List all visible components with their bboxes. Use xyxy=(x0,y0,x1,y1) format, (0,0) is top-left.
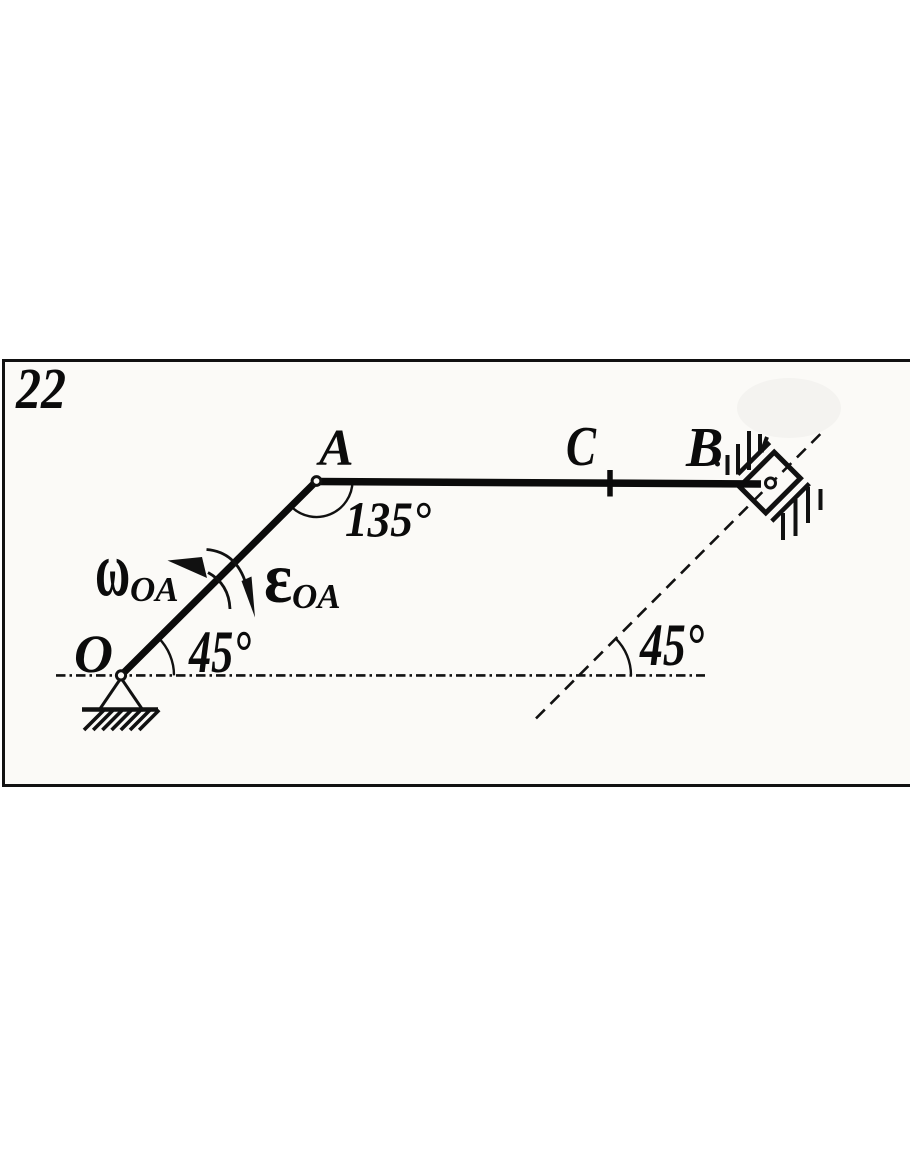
svg-text:22: 22 xyxy=(15,356,66,421)
svg-text:135°: 135° xyxy=(345,491,431,547)
svg-text:OA: OA xyxy=(292,577,341,616)
svg-text:OA: OA xyxy=(130,570,179,609)
svg-text:O: O xyxy=(74,624,113,684)
svg-text:C: C xyxy=(566,416,597,478)
svg-text:A: A xyxy=(316,420,354,477)
svg-text:ω: ω xyxy=(95,527,130,612)
svg-text:B: B xyxy=(685,417,723,479)
svg-text:ε: ε xyxy=(264,537,292,618)
svg-text:45°: 45° xyxy=(188,619,251,685)
svg-text:45°: 45° xyxy=(639,612,704,678)
